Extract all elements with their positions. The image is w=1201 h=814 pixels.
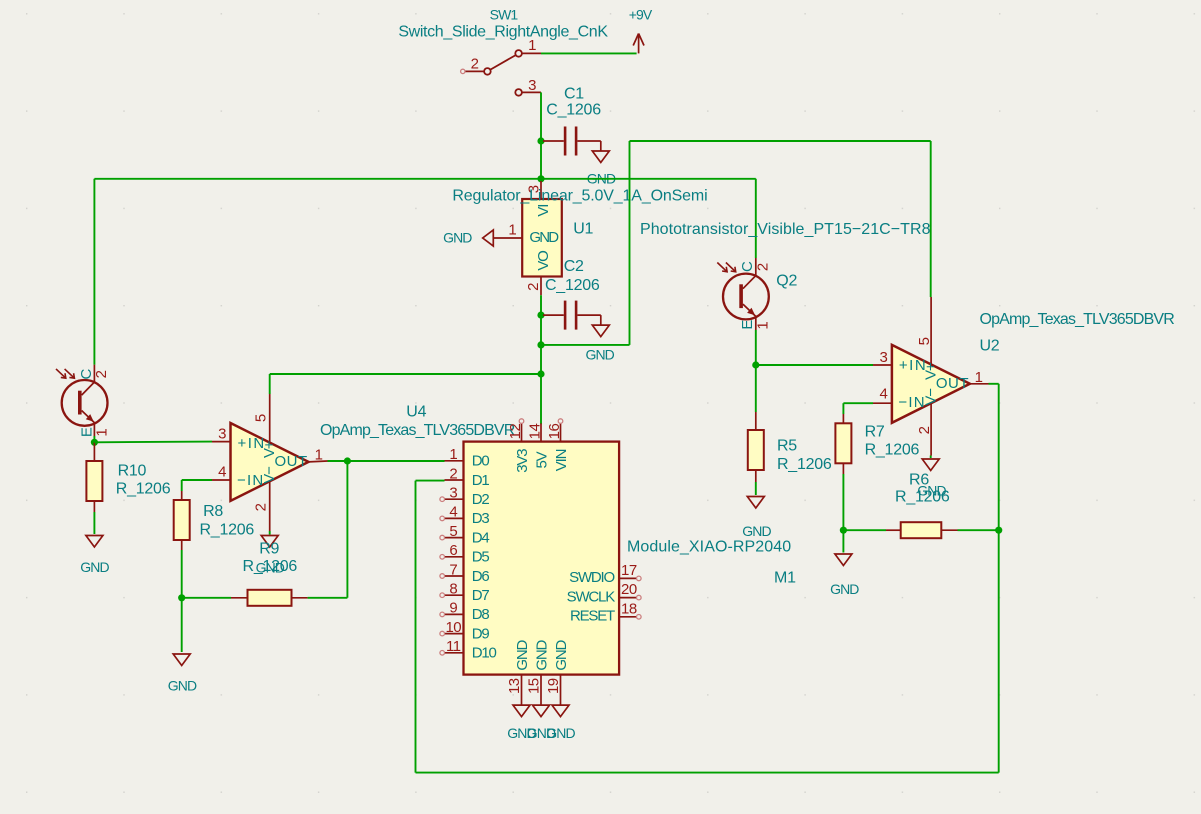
svg-text:GND: GND <box>514 639 531 670</box>
wire U4 OUT to module D0 <box>309 460 328 463</box>
ground U4 pin2 <box>261 536 278 548</box>
svg-text:R5: R5 <box>777 438 797 455</box>
svg-text:1: 1 <box>508 222 516 239</box>
svg-text:Module_XIAO-RP2040: Module_XIAO-RP2040 <box>627 538 791 555</box>
M1 pin 18 (RESET) <box>619 616 636 618</box>
svg-text:D7: D7 <box>472 587 490 604</box>
ground C1 <box>592 151 609 163</box>
ground R7 node <box>835 554 852 566</box>
svg-text:C2: C2 <box>564 258 584 275</box>
svg-text:1: 1 <box>449 446 457 463</box>
svg-text:D0: D0 <box>472 453 490 470</box>
svg-text:E: E <box>739 320 756 330</box>
M1 pin 5 (D4) <box>445 537 464 539</box>
svg-text:R_1206: R_1206 <box>865 441 920 458</box>
M1 pin 1 (D0) <box>445 460 464 462</box>
M1 pin 6 (D5) <box>445 556 464 558</box>
svg-text:GND: GND <box>742 523 771 539</box>
wire U2 OUT <box>970 383 989 385</box>
resistor R6 <box>901 522 942 538</box>
svg-text:9: 9 <box>449 600 457 617</box>
Q2 emitter pin <box>755 317 757 330</box>
svg-text:C_1206: C_1206 <box>545 277 600 294</box>
resistor R5 <box>748 430 764 470</box>
ground R10 <box>86 536 103 548</box>
ground C2 <box>592 325 609 337</box>
wire to U2 +IN <box>756 364 873 366</box>
svg-text:D8: D8 <box>472 606 490 623</box>
svg-text:6: 6 <box>449 542 457 559</box>
svg-text:VI: VI <box>535 205 552 217</box>
svg-text:SWDIO: SWDIO <box>569 569 614 586</box>
M1 pin 12 (3V3) <box>521 423 523 441</box>
resistor R9 <box>248 590 292 606</box>
svg-text:D9: D9 <box>472 625 490 642</box>
svg-text:D4: D4 <box>472 529 490 546</box>
wire 5V to U4 V+ <box>270 373 541 375</box>
ground M1 pin 13 <box>513 705 530 717</box>
svg-text:D6: D6 <box>472 568 490 585</box>
wire bottom feedback run <box>416 772 999 774</box>
svg-text:SW1: SW1 <box>490 7 519 23</box>
svg-text:3: 3 <box>218 425 226 442</box>
junction U2 V+ tap <box>537 341 544 348</box>
capacitor C2 <box>543 315 601 325</box>
power symbol +9V <box>633 34 644 54</box>
svg-text:OpAmp_Texas_TLV365DBVR: OpAmp_Texas_TLV365DBVR <box>320 422 515 439</box>
wire R6 right <box>941 529 957 531</box>
svg-text:R8: R8 <box>203 503 223 520</box>
svg-text:U4: U4 <box>406 404 426 421</box>
svg-text:1: 1 <box>93 429 110 437</box>
svg-text:Q2: Q2 <box>776 273 797 290</box>
svg-text:1: 1 <box>755 322 772 330</box>
svg-text:OpAmp_Texas_TLV365DBVR: OpAmp_Texas_TLV365DBVR <box>980 311 1175 328</box>
ground R8 node <box>173 654 190 666</box>
M1 pin 4 (D3) <box>445 517 464 519</box>
svg-text:D10: D10 <box>472 645 497 662</box>
svg-text:3: 3 <box>879 349 887 366</box>
svg-text:2: 2 <box>916 426 933 434</box>
switch SW1 <box>465 50 542 96</box>
svg-text:R10: R10 <box>118 462 147 479</box>
ground U2 V- <box>930 456 932 459</box>
svg-text:7: 7 <box>449 561 457 578</box>
svg-text:5V: 5V <box>534 451 551 468</box>
junction Q2 emitter node <box>752 361 759 368</box>
svg-text:R_1206: R_1206 <box>243 558 298 575</box>
op-amp U2 <box>892 345 970 423</box>
junction C1 tap <box>537 137 544 144</box>
svg-text:20: 20 <box>621 581 637 598</box>
svg-text:2: 2 <box>449 465 457 482</box>
wire U1 VO down to module 5V <box>540 295 542 424</box>
M1 pin 8 (D7) <box>445 594 464 596</box>
svg-text:3: 3 <box>528 77 536 94</box>
svg-text:D5: D5 <box>472 549 490 566</box>
U4 pin 5 (V+) <box>269 394 271 443</box>
ground below R8 <box>181 598 183 652</box>
M1 pin 17 (SWDIO) <box>619 577 636 579</box>
svg-text:2: 2 <box>471 56 479 73</box>
svg-text:R_1206: R_1206 <box>777 456 832 473</box>
svg-text:C: C <box>739 261 756 272</box>
svg-text:11: 11 <box>446 638 461 655</box>
U1 pin 1 (GND, left) <box>494 237 522 239</box>
svg-text:R9: R9 <box>259 541 279 558</box>
svg-text:10: 10 <box>445 619 461 636</box>
svg-text:17: 17 <box>621 562 637 579</box>
svg-text:R_1206: R_1206 <box>116 481 171 498</box>
svg-text:V−: V− <box>922 388 939 406</box>
M1 pin 19 (GND) <box>560 675 562 706</box>
svg-text:2: 2 <box>93 370 110 378</box>
svg-text:5: 5 <box>916 337 933 345</box>
U2 pin 2 (V-) <box>930 403 932 455</box>
svg-text:2: 2 <box>525 283 542 291</box>
svg-text:U2: U2 <box>980 338 1000 355</box>
resistor R8 <box>174 500 190 540</box>
svg-text:GND: GND <box>585 347 614 363</box>
wire SW1 pin3 down to U1 VI <box>540 92 542 181</box>
svg-text:V+: V+ <box>261 440 278 458</box>
wire R6 left <box>843 529 886 531</box>
svg-text:GND: GND <box>546 725 575 741</box>
M1 pin 13 (GND) <box>521 675 523 706</box>
junction R7/R6 node <box>840 527 847 534</box>
wire junction to R10 <box>93 442 95 461</box>
wire SW1 pin1 to +9V <box>541 52 637 54</box>
svg-text:GND: GND <box>80 559 109 575</box>
wire U2 -IN to R7 <box>873 402 892 404</box>
U1 pin 3 (VI, top) <box>540 181 542 199</box>
wire emitter to junction <box>93 436 95 442</box>
left phototransistor collector pin <box>93 365 95 383</box>
junction R8/R9 node <box>178 594 185 601</box>
M1 pin 14 (5V) <box>540 423 542 441</box>
svg-text:13: 13 <box>506 678 523 694</box>
ground below R7 <box>842 530 844 552</box>
wire junction to R5 <box>755 365 757 412</box>
svg-text:R7: R7 <box>865 424 885 441</box>
svg-text:GND: GND <box>443 229 472 245</box>
svg-text:V+: V+ <box>922 362 939 380</box>
M1 pin 7 (D6) <box>445 575 464 577</box>
svg-text:R_1206: R_1206 <box>200 521 255 538</box>
svg-text:D1: D1 <box>472 472 490 489</box>
svg-text:GND: GND <box>553 639 570 670</box>
svg-text:U1: U1 <box>573 221 593 238</box>
svg-text:R_1206: R_1206 <box>895 488 950 505</box>
svg-text:12: 12 <box>507 424 524 440</box>
M1 pin 11 (D10) <box>445 652 464 654</box>
junction C2 tap <box>537 312 544 319</box>
svg-text:16: 16 <box>546 424 563 440</box>
M1 pin 10 (D9) <box>445 633 464 635</box>
power symbol GND at U1 pin 1 <box>483 230 494 246</box>
wire 5V to U2 V+ <box>541 344 630 346</box>
op-amp U4 <box>231 423 309 501</box>
svg-text:3V3: 3V3 <box>514 449 531 473</box>
svg-text:GND: GND <box>529 229 559 246</box>
phototransistor Q1 (left) <box>56 369 108 426</box>
junction phototransistor rail <box>537 175 544 182</box>
wire U4 -IN to R8 <box>212 479 231 481</box>
svg-text:VIN: VIN <box>553 449 570 471</box>
phototransistor Q2 <box>717 263 769 320</box>
M1 pin 3 (D2) <box>445 498 464 500</box>
junction feedback node <box>995 527 1002 534</box>
svg-text:5: 5 <box>253 414 270 422</box>
svg-text:2: 2 <box>754 263 771 271</box>
wire R9 left <box>182 597 231 599</box>
M1 pin 16 (VIN) <box>560 423 562 441</box>
wire Q2 collector <box>755 179 757 258</box>
svg-text:SWCLK: SWCLK <box>567 588 616 605</box>
resistor R10 <box>86 461 102 501</box>
svg-text:GND: GND <box>830 581 859 597</box>
wire to U4 +IN <box>94 441 212 444</box>
M1 pin 15 (GND) <box>540 675 542 706</box>
svg-text:19: 19 <box>545 678 562 694</box>
ground M1 pin 19 <box>552 705 569 717</box>
wire left phototransistor collector <box>93 179 95 365</box>
resistor R7 <box>835 423 851 463</box>
regulator U1 <box>522 199 562 277</box>
wire to module D1 <box>416 480 445 482</box>
ground U2 pin2 <box>922 459 939 471</box>
svg-text:2: 2 <box>252 503 269 511</box>
svg-text:4: 4 <box>449 504 457 521</box>
svg-text:15: 15 <box>526 678 543 694</box>
svg-text:OUT: OUT <box>275 453 308 470</box>
capacitor C1 <box>543 141 601 151</box>
svg-text:C1: C1 <box>564 86 584 103</box>
junction U4 V+ tap <box>537 370 544 377</box>
svg-text:C_1206: C_1206 <box>546 102 601 119</box>
svg-text:M1: M1 <box>774 570 796 587</box>
svg-text:GND: GND <box>534 639 551 670</box>
svg-text:4: 4 <box>218 464 226 481</box>
U1 pin 2 (VO, bottom) <box>540 277 542 296</box>
wire R9 right to output <box>292 597 308 599</box>
svg-text:Phototransistor_Visible_PT15−2: Phototransistor_Visible_PT15−21C−TR8 <box>640 221 931 238</box>
svg-text:Regulator_Linear_5.0V_1A_OnSem: Regulator_Linear_5.0V_1A_OnSemi <box>452 187 707 204</box>
svg-text:3: 3 <box>449 485 457 502</box>
ground R5 <box>747 497 764 509</box>
U4 pin 2 (V-) <box>269 481 271 531</box>
svg-text:14: 14 <box>527 424 544 440</box>
svg-text:D3: D3 <box>472 510 490 527</box>
svg-text:D2: D2 <box>472 491 490 508</box>
svg-text:OUT: OUT <box>936 375 969 392</box>
svg-text:V−: V− <box>261 466 278 484</box>
Q2 collector pin <box>755 258 757 276</box>
svg-text:+9V: +9V <box>629 7 653 23</box>
svg-text:8: 8 <box>449 581 457 598</box>
left phototransistor emitter pin <box>93 423 95 436</box>
svg-text:18: 18 <box>621 600 637 617</box>
module M1 XIAO-RP2040 body <box>464 442 620 675</box>
M1 pin 9 (D8) <box>445 613 464 615</box>
wire collector rail <box>94 178 755 180</box>
M1 pin 2 (D1) <box>445 479 464 481</box>
svg-text:RESET: RESET <box>570 608 615 625</box>
ground M1 pin 15 <box>533 705 550 717</box>
svg-text:5: 5 <box>449 523 457 540</box>
svg-text:4: 4 <box>879 386 887 403</box>
unconnected end SW1 pin 2 <box>461 69 465 73</box>
junction left emitter node <box>91 439 98 446</box>
svg-text:Switch_Slide_RightAngle_CnK: Switch_Slide_RightAngle_CnK <box>398 23 608 40</box>
wire Q2 emitter down <box>755 330 757 365</box>
junction U4 output node <box>344 457 351 464</box>
svg-text:VO: VO <box>535 251 552 271</box>
U2 pin 5 (V+) <box>930 297 932 365</box>
M1 pin 20 (SWCLK) <box>619 597 636 599</box>
svg-text:GND: GND <box>168 678 197 694</box>
ground U4 V- <box>269 531 271 535</box>
svg-text:R6: R6 <box>909 472 929 489</box>
